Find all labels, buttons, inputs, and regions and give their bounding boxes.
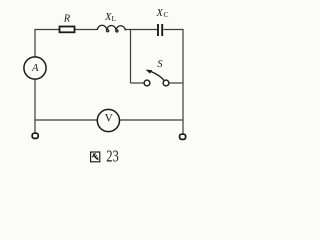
wire: voltmeter to right junction xyxy=(120,119,184,121)
svg-text:S: S xyxy=(157,59,163,70)
wire left vertical: corner down to ammeter xyxy=(34,29,36,57)
node: junction of inductor output and capacitor/switch branch xyxy=(130,30,132,84)
svg-text:A: A xyxy=(31,63,39,74)
wire: ammeter down to bottom rail xyxy=(34,79,36,120)
svg-text:V: V xyxy=(105,113,114,125)
wire: switch branch right segment xyxy=(169,82,183,84)
svg-text:R: R xyxy=(63,14,71,25)
svg-text:X: X xyxy=(156,8,164,19)
switch lever with arrow xyxy=(151,72,165,82)
switch S xyxy=(144,80,150,86)
wire: inductor to capacitor branch xyxy=(126,29,158,31)
wire: capacitor to top-right corner xyxy=(164,29,184,31)
svg-text:L: L xyxy=(112,14,117,23)
wire: resistor to inductor xyxy=(75,29,98,31)
terminal right (binding post) xyxy=(180,134,186,139)
resistor R xyxy=(60,27,75,33)
voltmeter V (U-meter) xyxy=(97,109,119,131)
wire: switch junction down to bottom rail xyxy=(182,83,184,120)
terminal left (binding post) xyxy=(32,133,38,138)
wire: switch branch left segment xyxy=(131,82,145,84)
wire top-left: top rail from corner to resistor xyxy=(35,29,59,31)
wire bottom rail: left junction to voltmeter xyxy=(35,119,97,121)
inductor XL xyxy=(97,25,125,32)
caption: 图 23 (figure 23) xyxy=(91,152,100,162)
wire right vertical: top corner down to switch junction xyxy=(182,29,184,83)
ammeter A (U-meter) xyxy=(24,57,46,79)
wire: bottom rail down to right terminal xyxy=(182,120,184,134)
capacitor XC xyxy=(157,24,159,36)
svg-text:C: C xyxy=(164,10,169,19)
svg-text:23: 23 xyxy=(106,146,119,165)
wire: bottom rail junction down to left terminal xyxy=(34,120,36,133)
